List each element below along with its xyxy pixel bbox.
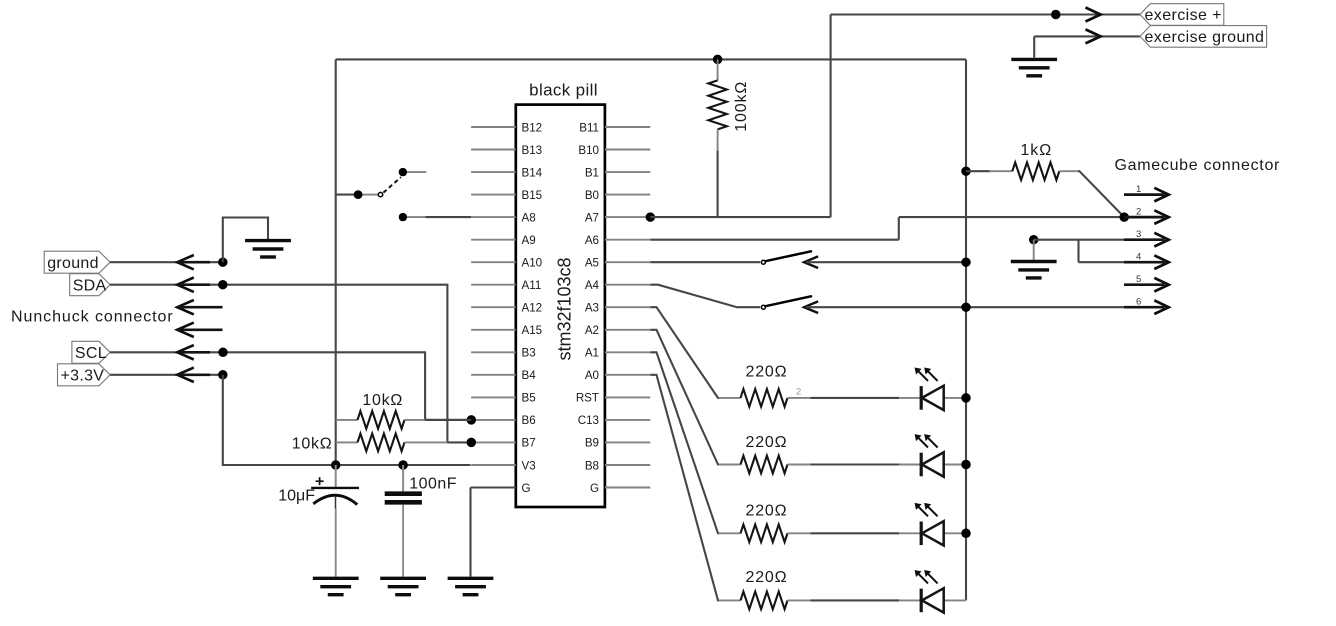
wire switch throw to pin A8 [425,216,471,218]
wire pin G to ground [471,486,516,488]
pin B7 (left stub + label) [471,441,516,443]
wire pin3 branch down [1077,240,1079,263]
wire A7 to riser [650,216,830,218]
junction SDA [218,280,228,290]
wire ground to gamecube pin3 [1034,239,1124,241]
resistor 10kΩ (B7) [336,441,358,443]
connector pin arrow (ground) [177,255,194,269]
svg-text:B9: B9 [585,437,599,450]
resistor 220Ω #4 [719,599,741,601]
svg-text:A10: A10 [522,257,543,270]
pin A12 (left stub + label) [471,306,516,308]
connector pin arrow (+3.3V) [177,368,194,382]
svg-text:10μF: 10μF [278,487,315,504]
wire +3.3V down to V3 rail [223,375,336,465]
switch S1 (A5) symbol [761,260,765,264]
svg-text:stm32f103c8: stm32f103c8 [555,257,575,360]
pin A6 (right stub + label) [605,239,650,241]
wire branch to gamecube pin4 [1079,261,1125,263]
net label exercise + [1140,4,1224,26]
svg-text:RST: RST [576,392,599,405]
svg-text:5: 5 [1136,274,1141,285]
resistor 220Ω #1 [719,397,741,399]
svg-text:G: G [590,482,599,495]
svg-text:A15: A15 [522,324,543,337]
svg-text:A11: A11 [522,279,542,292]
svg-text:A0: A0 [585,369,599,382]
ground (nunchuck) [245,239,291,242]
LED D4 [920,589,923,613]
svg-text:220Ω: 220Ω [746,434,788,451]
wire bus1 vertical (x=335.7) [335,59,337,465]
junction gamecube pin2 [1119,212,1129,222]
LED D1 leads [899,397,921,399]
svg-text:Nunchuck connector: Nunchuck connector [11,308,174,325]
arrow exercise ground chevron [1086,29,1101,43]
connector pin arrow (nunchuck pin4) [177,323,194,337]
pin B6 (left stub + label) [471,419,516,421]
svg-text:exercise +: exercise + [1145,7,1222,24]
junction pin B6 [467,415,477,425]
net label +3.3V [58,364,111,386]
connector pin arrow (nunchuck pin3) [177,300,194,314]
connector pin 2 (gamecube) [1124,216,1165,219]
wire ground label to junction [110,261,223,263]
junction bus2 / LED row 3 [961,529,971,539]
LED D4 leads [899,599,921,601]
wire R220 to LED #2 [811,463,900,465]
svg-text:B6: B6 [522,414,536,427]
svg-text:V3: V3 [522,459,536,472]
junction bus2 / pin6 wire [961,302,971,312]
LED D2 [920,453,923,477]
junction pin B7 [467,438,477,448]
ground (exercise) [1011,58,1057,61]
LED D2 leads [899,464,921,466]
wire +3.3V label to dot [110,374,223,376]
switch S3 common lead [363,194,378,196]
wire A1 diagonal to LED row 3 [650,352,719,533]
pin A5 (right stub + label) [605,261,650,263]
connector pin arrow (SDA) [177,278,194,292]
pin B8 (right stub + label) [605,464,650,466]
wire bus2 vertical (x=966) [965,59,967,600]
connector pin 3 (gamecube) [1124,238,1165,241]
resistor 220Ω #2 [719,464,741,466]
svg-text:C13: C13 [578,414,599,427]
svg-text:B10: B10 [578,144,599,157]
svg-text:ground: ground [47,255,99,272]
junction on exercise+ wire [1051,10,1061,20]
wire bus1 to switch common [336,194,358,196]
svg-text:100kΩ: 100kΩ [733,81,750,132]
wire R220 to LED #3 [811,532,900,534]
svg-text:+3.3V: +3.3V [61,367,105,384]
wire A4 diagonal to switch2 [650,285,760,308]
pin A9 (left stub + label) [471,239,516,241]
pin B12 (left stub + label) [471,126,516,128]
wire switch2 to gamecube pin6 [806,306,1124,308]
wire to gamecube pin2 [899,216,1124,218]
junction bus2 / LED row 2 [961,460,971,470]
svg-text:1: 1 [1136,184,1141,195]
svg-text:A12: A12 [522,302,543,315]
svg-text:B11: B11 [579,121,599,134]
LED D1 [920,386,923,410]
svg-text:2: 2 [796,387,801,398]
wire exercise ground horizontal [1034,35,1140,37]
junction pin3 wire / ground [1029,235,1039,245]
pin B1 (right stub + label) [605,171,650,173]
wire R220 to LED #4 [811,599,900,601]
switch S3 throw B14 stub [407,171,426,173]
switch S3 throw A8 stub [407,216,425,218]
svg-text:A5: A5 [585,257,599,270]
ground (10μF) [313,577,359,580]
svg-text:2: 2 [1136,207,1141,218]
junction bus2 / LED row 1 [961,393,971,403]
svg-text:1kΩ: 1kΩ [1020,142,1052,159]
svg-text:B14: B14 [522,166,543,179]
wire SCL label to B6 drop [110,352,471,420]
wire A6 horizontal [650,239,899,241]
ground (G pin) [448,577,494,580]
wire exercise+ horizontal [831,13,1140,15]
ground (100nF) [380,577,426,580]
LED D3 leads [899,532,921,534]
pin A8 (left stub + label) [471,216,516,218]
capacitor 10μF [335,465,337,487]
resistor 1kΩ [990,170,1013,172]
svg-text:black pill: black pill [529,80,598,99]
svg-text:A1: A1 [585,347,599,360]
net label SCL [72,341,110,363]
net label SDA [70,274,110,296]
wire A6 riser [898,217,900,240]
wire SDA label to B7 drop [110,285,471,443]
junction top rail / R 100k [713,55,723,65]
svg-text:10kΩ: 10kΩ [362,392,403,409]
svg-text:Gamecube connector: Gamecube connector [1115,157,1281,174]
pin RST (right stub + label) [605,396,650,398]
svg-text:B4: B4 [522,369,537,382]
svg-text:exercise ground: exercise ground [1145,29,1265,46]
pin A15 (left stub + label) [471,329,516,331]
wire V3 rail [223,464,471,466]
junction SCL [218,348,228,358]
pin B0 (right stub + label) [605,194,650,196]
wire exercise ground stub down [1033,36,1035,57]
svg-text:220Ω: 220Ω [746,363,788,380]
ground (gamecube) [1011,260,1057,263]
wire A3 diagonal to LED row 1 [650,307,719,398]
wire R220 to LED #1 [811,397,900,399]
junction V3 / C100nF [398,460,408,470]
svg-text:6: 6 [1136,297,1141,308]
pin A3 (right stub + label) [605,306,650,308]
wire A0 diagonal to LED row 4 [650,375,719,601]
pin B5 (left stub + label) [471,396,516,398]
svg-text:B0: B0 [585,189,599,202]
wire bus2 to R1k [966,170,990,172]
pin G(right) (right stub + label) [605,487,650,489]
wire SCL drop to pin B6 [425,419,471,421]
pin A4 (right stub + label) [605,284,650,286]
svg-text:A7: A7 [585,211,599,224]
svg-text:B8: B8 [585,459,599,472]
wire riser x=830.6 up [830,15,832,218]
svg-text:B15: B15 [522,189,543,202]
svg-text:A9: A9 [522,234,536,247]
svg-text:4: 4 [1136,252,1141,263]
wire R100k bottom to A7 net [717,151,719,218]
connector pin 5 (gamecube) [1124,283,1165,286]
pin B11 (right stub + label) [605,126,650,128]
net label exercise ground [1140,26,1267,48]
pin A11 (left stub + label) [471,284,516,286]
svg-text:100nF: 100nF [409,476,457,493]
pin B9 (right stub + label) [605,441,650,443]
wire ground stub (right) [1033,240,1035,260]
wire nunchuck ground riser [223,218,268,263]
svg-text:B7: B7 [522,437,536,450]
pin V3 (left stub + label) [471,464,516,466]
resistor 10kΩ (B6) [336,419,358,421]
pin B10 (right stub + label) [605,149,650,151]
resistor 100kΩ vertical [717,59,719,80]
switch S2 (A3) symbol [761,305,765,309]
svg-text:A8: A8 [522,211,536,224]
svg-text:A4: A4 [585,279,600,292]
pin B3 (left stub + label) [471,351,516,353]
pin A7 (right stub + label) [605,216,650,218]
svg-text:B3: B3 [522,347,536,360]
pin A10 (left stub + label) [471,261,516,263]
svg-text:B1: B1 [585,166,599,179]
switch S3 pole circle [378,192,382,196]
net label ground [44,251,110,273]
switch S3 common terminal [354,190,363,199]
switch S3 dashed lever [383,177,401,193]
pin A1 (right stub + label) [605,351,650,353]
svg-text:A2: A2 [585,324,599,337]
LED D3 [920,522,923,546]
svg-text:SCL: SCL [75,345,107,362]
pin C13 (right stub + label) [605,419,650,421]
wire A2 diagonal to LED row 2 [650,330,719,465]
svg-text:10kΩ: 10kΩ [292,435,333,452]
connector pin arrow (SCL) [177,345,194,359]
connector pin 4 (gamecube) [1124,261,1165,264]
junction pin A7 / wire [646,212,656,222]
pin A2 (right stub + label) [605,329,650,331]
svg-text:A6: A6 [585,234,599,247]
pin G (left stub + label) [471,487,516,489]
junction +3.3V [218,370,228,380]
junction V3 / bus1 / C10uF [331,460,341,470]
svg-text:SDA: SDA [73,277,107,294]
junction nunchuck ground [218,257,228,267]
arrow exercise+ chevron [1086,8,1101,22]
pin A0 (right stub + label) [605,374,650,376]
svg-text:B13: B13 [522,144,543,157]
junction bus2 / switch1 [961,257,971,267]
svg-text:G: G [522,482,531,495]
svg-text:A3: A3 [585,302,599,315]
switch S3 throw A8 terminal [399,213,407,221]
wire A5 to switch1 [650,261,760,263]
IC U1 black pill body [516,105,605,507]
pin B4 (left stub + label) [471,374,516,376]
polarity + (10μF) [316,480,324,482]
pin B13 (left stub + label) [471,149,516,151]
switch S3 throw B14 terminal [399,168,407,176]
wire switch1 to bus2 [806,261,966,263]
svg-text:220Ω: 220Ω [746,502,788,519]
connector pin 1 (gamecube) [1124,193,1165,196]
svg-text:220Ω: 220Ω [746,569,788,586]
connector pin 6 (gamecube) [1124,306,1165,309]
wire top rail (bus1 top to bus2 top) [336,58,966,60]
capacitor 100nF [402,465,404,491]
svg-text:3: 3 [1136,229,1141,240]
pin B14 (left stub + label) [471,171,516,173]
svg-text:B5: B5 [522,392,536,405]
resistor 220Ω #3 [719,532,741,534]
svg-text:B12: B12 [522,121,543,134]
junction bus2 / R1k [961,166,971,176]
pin B15 (left stub + label) [471,194,516,196]
wire R1k diagonal to pin2 [1078,171,1124,217]
